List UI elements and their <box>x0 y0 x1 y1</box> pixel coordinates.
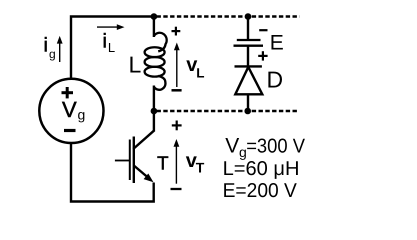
wire from diode to node D <box>247 94 249 111</box>
minus sign of Vg <box>64 129 76 132</box>
plus sign of vL <box>172 27 181 36</box>
wire from node C to battery <box>247 17 249 40</box>
svg-text:E: E <box>270 32 284 55</box>
wire inductor bottom stub <box>153 86 155 113</box>
battery top bar (negative) <box>237 39 261 41</box>
gate lead <box>115 160 130 162</box>
svg-text:L: L <box>108 40 115 55</box>
wire from battery to diode <box>247 46 249 66</box>
svg-text:i: i <box>44 35 48 57</box>
svg-text:L: L <box>196 66 204 81</box>
voltage arrow vL <box>174 43 180 88</box>
gate bar <box>129 140 131 181</box>
plus sign of Vg <box>62 87 74 98</box>
battery E <box>234 40 264 46</box>
svg-text:=300 V: =300 V <box>246 135 305 157</box>
wire collector vertical <box>153 111 155 131</box>
voltage arrow vT <box>174 139 180 184</box>
svg-text:E=200 V: E=200 V <box>223 180 298 202</box>
svg-text:g: g <box>78 107 86 123</box>
svg-text:D: D <box>267 67 284 93</box>
inductor L coil <box>145 33 167 90</box>
minus sign of E <box>259 29 267 31</box>
current arrow ig <box>57 36 63 62</box>
voltage source Vg <box>39 79 103 143</box>
svg-text:i: i <box>103 31 107 53</box>
svg-text:V: V <box>62 97 77 122</box>
dashed wire top rail <box>157 15 300 17</box>
plus sign of vT <box>172 121 182 131</box>
diode triangle <box>235 67 262 94</box>
transistor T (IGBT) <box>115 130 155 183</box>
emitter diagonal with arrow <box>134 166 148 178</box>
svg-text:L=60 μH: L=60 μH <box>223 158 300 180</box>
svg-text:L: L <box>129 52 142 78</box>
battery bottom bar (positive) <box>234 45 264 47</box>
minus sign of vT <box>171 188 182 190</box>
node A top-left junction <box>151 13 158 20</box>
minus sign of vL <box>172 89 182 92</box>
node B mid junction <box>151 108 158 115</box>
body bar <box>133 137 135 184</box>
svg-text:T: T <box>157 153 169 174</box>
diode D <box>235 66 263 94</box>
wire inductor top stub <box>153 16 155 38</box>
node D bottom-right junction <box>244 108 251 115</box>
wire bottom-left from source to emitter corner <box>71 143 154 201</box>
wire top-left from source to node A <box>71 17 155 79</box>
svg-text:T: T <box>196 159 205 175</box>
node C top-right junction <box>245 13 252 20</box>
svg-text:g: g <box>49 47 56 61</box>
dashed wire middle rail <box>157 110 298 112</box>
svg-text:V: V <box>225 134 239 157</box>
diode cathode bar <box>235 65 262 67</box>
plus sign of E <box>258 51 267 60</box>
collector diagonal <box>133 130 154 149</box>
current arrow iL <box>97 24 125 30</box>
